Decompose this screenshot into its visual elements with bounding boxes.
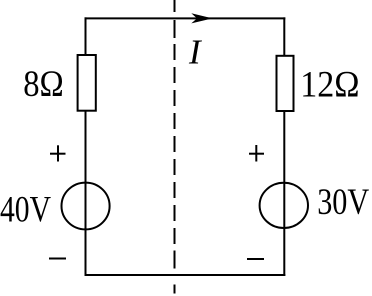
svg-text:8Ω: 8Ω — [23, 64, 64, 105]
svg-text:40V: 40V — [0, 190, 51, 231]
svg-text:12Ω: 12Ω — [300, 64, 359, 105]
svg-text:30V: 30V — [317, 182, 369, 223]
